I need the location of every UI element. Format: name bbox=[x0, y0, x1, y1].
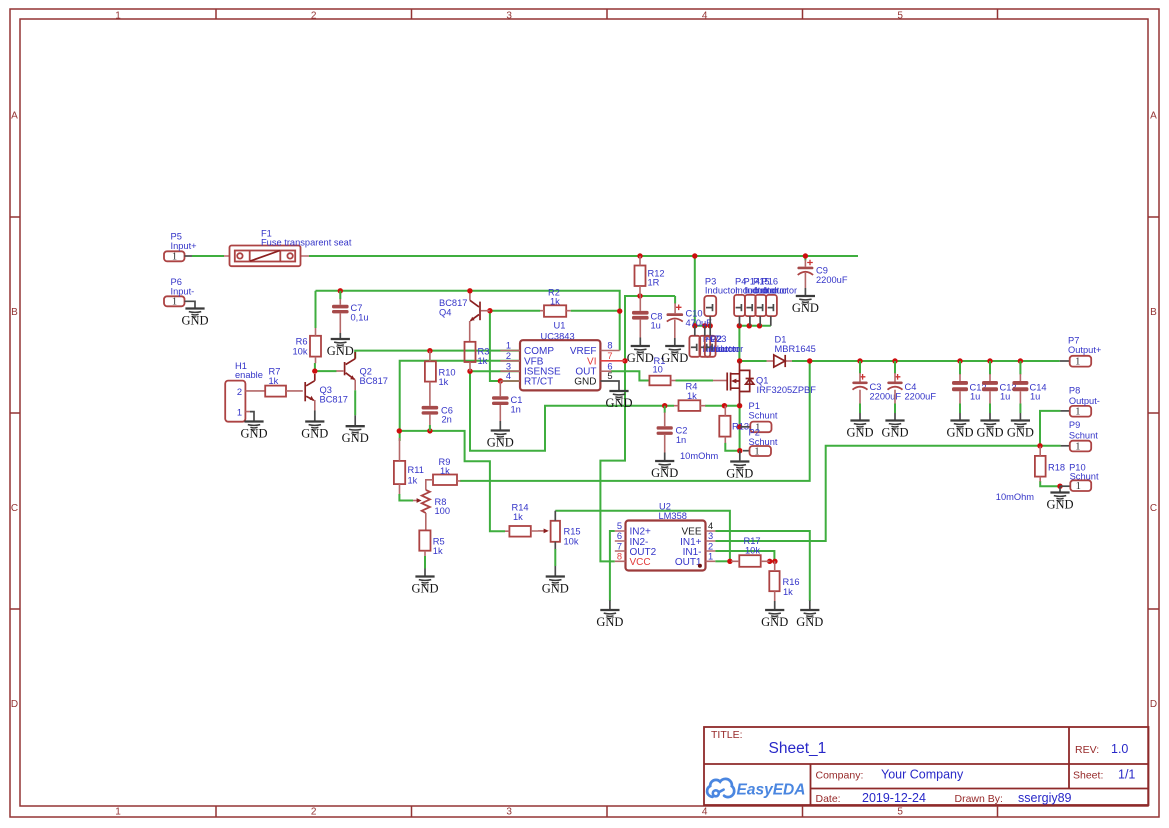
resistor R9 1k bbox=[426, 457, 461, 490]
diode D1 MBR1645 bbox=[767, 335, 816, 367]
junction dot C9 top bbox=[803, 253, 808, 258]
svg-text:P23: P23 bbox=[710, 334, 727, 344]
svg-text:GND: GND bbox=[596, 615, 623, 629]
ground P10 bbox=[1046, 493, 1073, 512]
wire R1 right to Q1 gate bbox=[676, 380, 714, 382]
svg-text:R6: R6 bbox=[296, 337, 308, 347]
junction dot gang lead 3 bbox=[757, 323, 762, 328]
svg-text:IRF3205ZPBF: IRF3205ZPBF bbox=[757, 385, 817, 395]
ground C10 bbox=[661, 346, 688, 365]
junction dot R17 right bbox=[767, 559, 772, 564]
gnd lead P10 node bbox=[1059, 486, 1061, 492]
svg-text:470uF: 470uF bbox=[686, 318, 713, 328]
polarized capacitor C10 470uF bbox=[667, 303, 713, 346]
wire U2 VEE to GND drop bbox=[715, 531, 810, 601]
svg-text:10k: 10k bbox=[564, 536, 579, 546]
svg-text:GND: GND bbox=[605, 396, 632, 410]
svg-text:5: 5 bbox=[617, 521, 622, 531]
connector H1 enable bbox=[225, 361, 265, 422]
wire R17 right to R16 node bbox=[770, 560, 775, 562]
svg-text:Drawn By:: Drawn By: bbox=[955, 793, 1003, 805]
connector P9 Schunt bbox=[1061, 420, 1099, 452]
svg-text:2200uF: 2200uF bbox=[905, 391, 937, 401]
capacitor C14 1u bbox=[1012, 361, 1046, 421]
svg-text:EasyEDA: EasyEDA bbox=[737, 782, 806, 799]
junction dot R16 top bbox=[772, 559, 777, 564]
svg-text:4: 4 bbox=[702, 11, 708, 22]
svg-text:1: 1 bbox=[754, 446, 759, 457]
svg-text:10mOhm: 10mOhm bbox=[680, 451, 718, 461]
EasyEDA logo bbox=[707, 779, 805, 799]
resistor R1 10 bbox=[649, 356, 675, 386]
svg-text:Schunt: Schunt bbox=[1069, 431, 1098, 441]
gnd lead U2 IN2+ bbox=[609, 601, 611, 611]
svg-text:Company:: Company: bbox=[816, 770, 864, 782]
svg-text:4: 4 bbox=[506, 371, 511, 381]
connector P4 Inductor bbox=[734, 276, 768, 326]
svg-text:Your Company: Your Company bbox=[881, 768, 964, 782]
svg-text:REV:: REV: bbox=[1075, 744, 1099, 756]
svg-text:GND: GND bbox=[726, 467, 753, 481]
svg-text:GND: GND bbox=[487, 436, 514, 450]
svg-text:1R: 1R bbox=[648, 278, 660, 288]
svg-text:1k: 1k bbox=[687, 391, 697, 401]
ground C14 bbox=[1007, 421, 1034, 440]
junction dot C7 top bbox=[338, 288, 343, 293]
wire top net down to inductor bank bbox=[695, 256, 710, 326]
ground P6 bbox=[181, 309, 208, 328]
capacitor C6 2n bbox=[422, 405, 453, 431]
svg-text:Inductor: Inductor bbox=[764, 285, 798, 295]
svg-text:GND: GND bbox=[976, 426, 1003, 440]
junction dot R13 top bbox=[722, 403, 727, 408]
svg-text:R5: R5 bbox=[433, 536, 445, 546]
svg-text:3: 3 bbox=[708, 531, 713, 541]
svg-text:1: 1 bbox=[1075, 441, 1080, 452]
op-amp controller U1 UC3843 bbox=[500, 321, 625, 392]
connector P7 Output+ bbox=[1060, 336, 1102, 368]
connector P16 Inductor bbox=[762, 276, 798, 326]
wire VCC net from R12/C8 node down to U2 VCC bbox=[600, 296, 675, 561]
wire R2 right to VREF vertical bbox=[571, 310, 620, 312]
ground C12 bbox=[946, 421, 973, 440]
svg-text:GND: GND bbox=[946, 426, 973, 440]
svg-text:1u: 1u bbox=[970, 392, 980, 402]
resistor R10 1k bbox=[425, 351, 456, 406]
svg-text:1: 1 bbox=[1075, 406, 1080, 417]
wire inductor bank bottom bus bbox=[739, 325, 770, 327]
svg-text:Q1: Q1 bbox=[756, 375, 768, 385]
connector P5 Input+ bbox=[164, 232, 197, 263]
svg-text:R10: R10 bbox=[439, 368, 456, 378]
junction dot P1 tap bbox=[737, 424, 742, 429]
svg-text:7: 7 bbox=[607, 351, 612, 361]
ground Q2 bbox=[342, 426, 369, 445]
polarized capacitor C9 2200uF bbox=[797, 260, 847, 296]
wire Q1 drain node to D1 anode bbox=[740, 360, 767, 362]
svg-text:D: D bbox=[1150, 699, 1157, 710]
svg-text:Sheet_1: Sheet_1 bbox=[769, 740, 827, 757]
svg-text:1u: 1u bbox=[1000, 392, 1010, 402]
polarized capacitor C3 2200uF bbox=[852, 361, 901, 421]
svg-text:10: 10 bbox=[653, 365, 663, 375]
svg-text:10k: 10k bbox=[293, 346, 308, 356]
svg-text:GND: GND bbox=[542, 582, 569, 596]
svg-text:GND: GND bbox=[411, 582, 438, 596]
svg-text:2200uF: 2200uF bbox=[816, 275, 848, 285]
junction dot C4 top bbox=[892, 358, 897, 363]
svg-text:4: 4 bbox=[708, 521, 713, 531]
svg-text:P8: P8 bbox=[1069, 386, 1080, 396]
svg-text:1k: 1k bbox=[440, 466, 450, 476]
svg-text:VCC: VCC bbox=[630, 557, 651, 568]
svg-text:Output+: Output+ bbox=[1068, 345, 1101, 355]
svg-text:ssergiy89: ssergiy89 bbox=[1018, 791, 1072, 805]
svg-text:GND: GND bbox=[240, 427, 267, 441]
connector P10 Schunt bbox=[1060, 462, 1099, 492]
wire R3 bottom to U1 ISENSE pin3 bbox=[470, 370, 520, 372]
junction dot Q1 drain bbox=[737, 358, 742, 363]
svg-text:1: 1 bbox=[237, 407, 242, 417]
svg-text:R3: R3 bbox=[478, 347, 490, 357]
svg-text:GND: GND bbox=[881, 426, 908, 440]
ground C1 bbox=[487, 431, 514, 450]
svg-text:2: 2 bbox=[311, 11, 317, 22]
junction dot P2 / GND node bbox=[737, 448, 742, 453]
svg-text:1: 1 bbox=[172, 297, 177, 308]
ground U2 VEE bbox=[796, 610, 823, 629]
svg-text:1: 1 bbox=[708, 552, 713, 562]
svg-text:Q4: Q4 bbox=[439, 307, 451, 317]
junction dot C2 top bbox=[662, 403, 667, 408]
svg-text:P1: P1 bbox=[749, 401, 760, 411]
svg-text:Input-: Input- bbox=[171, 287, 195, 297]
junction dot Q1 source / R4 bbox=[737, 403, 742, 408]
svg-text:C7: C7 bbox=[351, 303, 363, 313]
svg-text:1k: 1k bbox=[408, 476, 418, 486]
junction dot C12 top bbox=[957, 358, 962, 363]
polarized capacitor C4 2200uF bbox=[887, 361, 936, 421]
wire R18 bottom to P10/GND node bbox=[1040, 481, 1060, 486]
junction dot inductor feed bbox=[692, 253, 697, 258]
gnd lead U2 VEE bbox=[809, 601, 811, 611]
svg-text:enable: enable bbox=[235, 370, 263, 380]
ground R5 bbox=[411, 577, 438, 596]
svg-text:1: 1 bbox=[1076, 481, 1081, 492]
ground C9 bbox=[792, 296, 819, 315]
svg-text:5: 5 bbox=[897, 807, 903, 818]
svg-text:C: C bbox=[1150, 503, 1157, 514]
svg-text:GND: GND bbox=[761, 615, 788, 629]
resistor R14 1k bbox=[505, 503, 549, 537]
svg-text:R15: R15 bbox=[564, 526, 581, 536]
ground U1 pin5 bbox=[605, 391, 632, 410]
wire inductor bus down to Q1 drain node bbox=[738, 326, 740, 361]
junction dot C14 top bbox=[1018, 358, 1023, 363]
resistor R6 10k bbox=[293, 328, 322, 363]
svg-text:B: B bbox=[11, 307, 18, 318]
transistor Q4 BC817 bbox=[439, 294, 490, 342]
ground C13 bbox=[976, 421, 1003, 440]
svg-text:C: C bbox=[11, 503, 18, 514]
svg-text:R14: R14 bbox=[512, 503, 529, 513]
svg-text:BC817: BC817 bbox=[320, 395, 348, 405]
junction dot D1 output / R9 net bbox=[807, 358, 812, 363]
capacitor C2 1n bbox=[657, 406, 688, 461]
svg-text:R17: R17 bbox=[744, 536, 761, 546]
svg-text:Q2: Q2 bbox=[360, 367, 372, 377]
svg-text:LM358: LM358 bbox=[659, 511, 687, 521]
junction dot U1 VI pin7 to VCC net bbox=[622, 358, 627, 363]
svg-text:1: 1 bbox=[115, 11, 121, 22]
wire Q4 base node down to U1 RT/CT pin4 bbox=[490, 311, 520, 381]
connector P14 Inductor bbox=[744, 276, 779, 326]
capacitor C13 1u bbox=[982, 361, 1017, 421]
svg-text:Q3: Q3 bbox=[320, 385, 332, 395]
junction dot inductor row right bbox=[708, 323, 713, 328]
svg-text:VFB: VFB bbox=[524, 356, 544, 367]
junction dot R12 top bbox=[637, 253, 642, 258]
svg-text:GND: GND bbox=[574, 377, 596, 388]
wire U1 OUT pin6 to R1 bbox=[611, 371, 649, 380]
svg-text:8: 8 bbox=[607, 341, 612, 351]
wire C7/Q4 collector to U1 VREF pin8 bbox=[316, 291, 620, 351]
svg-text:Inductor: Inductor bbox=[705, 285, 739, 295]
fuse F1 bbox=[224, 229, 352, 267]
svg-text:B: B bbox=[1150, 307, 1157, 318]
ground Q3 bbox=[301, 422, 328, 441]
svg-text:RT/CT: RT/CT bbox=[524, 377, 553, 388]
capacitor C12 1u bbox=[952, 361, 987, 421]
junction dot OUT1 feedback bbox=[727, 559, 732, 564]
junction dot R3 bottom / ISENSE bbox=[467, 369, 472, 374]
junction dot C3 top bbox=[857, 358, 862, 363]
resistor R17 10k bbox=[731, 536, 770, 567]
wire R2 left to Q4 base node bbox=[490, 310, 540, 312]
svg-text:GND: GND bbox=[1007, 426, 1034, 440]
ground H1 bbox=[240, 422, 267, 441]
svg-text:R16: R16 bbox=[783, 577, 800, 587]
svg-text:GND: GND bbox=[796, 615, 823, 629]
connector P2 Schunt bbox=[743, 428, 778, 458]
svg-text:10k: 10k bbox=[745, 546, 760, 556]
svg-text:GND: GND bbox=[1046, 498, 1073, 512]
wire top net from F1 to C9 area bbox=[309, 255, 858, 257]
svg-text:C10: C10 bbox=[686, 309, 703, 319]
ground P2 node bbox=[726, 462, 753, 481]
ground R16 bbox=[761, 610, 788, 629]
svg-text:3: 3 bbox=[506, 361, 511, 371]
svg-text:D: D bbox=[11, 699, 18, 710]
svg-text:OUT1: OUT1 bbox=[675, 557, 702, 568]
svg-text:A: A bbox=[11, 111, 18, 122]
wire Q2 collector to U1 COMP pin1 bbox=[355, 351, 520, 359]
connector P8 Output- bbox=[1060, 386, 1100, 418]
junction dot R10 top bbox=[427, 348, 432, 353]
svg-text:VI: VI bbox=[587, 356, 596, 367]
svg-text:1u: 1u bbox=[651, 320, 661, 330]
svg-text:3: 3 bbox=[506, 807, 512, 818]
transistor Q3 BC817 bbox=[305, 374, 348, 422]
svg-text:1k: 1k bbox=[433, 546, 443, 556]
wire R11/C6 node to R14 bbox=[399, 431, 505, 531]
resistor R2 1k bbox=[540, 287, 571, 317]
svg-text:1.0: 1.0 bbox=[1111, 742, 1128, 756]
svg-text:GND: GND bbox=[181, 314, 208, 328]
svg-text:BC817: BC817 bbox=[360, 376, 388, 386]
svg-text:1: 1 bbox=[1075, 356, 1080, 367]
resistor R16 1k bbox=[769, 561, 799, 610]
svg-text:4: 4 bbox=[702, 807, 708, 818]
wire Q1 source down to P1/P2/GND node bbox=[739, 406, 741, 451]
MOSFET Q1 IRF3205ZPBF bbox=[713, 361, 816, 406]
potentiometer R15 10k bbox=[551, 511, 581, 577]
svg-text:2: 2 bbox=[708, 541, 713, 551]
svg-text:GND: GND bbox=[792, 301, 819, 315]
svg-text:2: 2 bbox=[311, 807, 317, 818]
svg-text:R18: R18 bbox=[1048, 462, 1065, 472]
svg-text:GND: GND bbox=[846, 426, 873, 440]
wire P9 node stub bbox=[1040, 445, 1061, 447]
svg-text:Output-: Output- bbox=[1069, 396, 1100, 406]
wire R13 bottom to P2 node bbox=[725, 443, 740, 451]
resistor R7 1k bbox=[265, 367, 303, 397]
wire ISENSE net down and to R4 row bbox=[470, 371, 674, 451]
svg-text:P6: P6 bbox=[171, 277, 182, 287]
connector P23 Inductor bbox=[705, 326, 743, 357]
svg-text:Date:: Date: bbox=[816, 793, 841, 805]
connector P17 Inductor bbox=[689, 326, 736, 357]
svg-text:100: 100 bbox=[435, 506, 451, 516]
connector P15 Inductor bbox=[753, 276, 788, 326]
svg-text:1: 1 bbox=[506, 341, 511, 351]
svg-text:A: A bbox=[1150, 111, 1157, 122]
svg-text:GND: GND bbox=[301, 427, 328, 441]
svg-text:1k: 1k bbox=[269, 376, 279, 386]
svg-text:Schunt: Schunt bbox=[1070, 472, 1099, 482]
svg-text:2: 2 bbox=[506, 351, 511, 361]
svg-text:0,1u: 0,1u bbox=[351, 313, 369, 323]
wire P5 to F1 bbox=[192, 255, 224, 257]
svg-text:5: 5 bbox=[897, 11, 903, 22]
junction dot P10 / GND node bbox=[1057, 484, 1062, 489]
svg-text:GND: GND bbox=[651, 466, 678, 480]
svg-text:1/1: 1/1 bbox=[1118, 768, 1135, 782]
svg-text:5: 5 bbox=[607, 371, 612, 381]
resistor R12 1R bbox=[635, 256, 665, 296]
resistor R13 10mOhm bbox=[719, 406, 749, 443]
gnd lead P2 node bbox=[739, 451, 741, 462]
svg-text:8: 8 bbox=[617, 552, 622, 562]
wire U2 IN1- to R17/R16 node bbox=[715, 551, 774, 561]
junction dot R11 top bbox=[397, 428, 402, 433]
potentiometer R8 100 bbox=[413, 490, 450, 531]
svg-text:GND: GND bbox=[342, 431, 369, 445]
svg-text:GND: GND bbox=[661, 351, 688, 365]
junction dot R12 bottom / C8 bbox=[637, 293, 642, 298]
svg-text:1n: 1n bbox=[511, 404, 521, 414]
junction dot R6 bottom / Q3 collector bbox=[312, 368, 317, 373]
svg-text:7: 7 bbox=[617, 541, 622, 551]
junction dot Q4 collector bbox=[467, 288, 472, 293]
junction dot C1 top / RT-CT bbox=[498, 378, 503, 383]
svg-text:C9: C9 bbox=[816, 266, 828, 276]
svg-text:1k: 1k bbox=[550, 297, 560, 307]
capacitor C8 1u bbox=[632, 296, 662, 346]
ground R15 bbox=[542, 577, 569, 596]
svg-text:P9: P9 bbox=[1069, 420, 1080, 430]
transistor Q2 BC817 bbox=[336, 352, 388, 426]
svg-text:P5: P5 bbox=[171, 232, 182, 242]
wire U2 IN1+ to P9/P8/R18 node bbox=[715, 411, 1060, 541]
ground C7 bbox=[327, 339, 354, 358]
svg-text:1k: 1k bbox=[513, 512, 523, 522]
svg-text:U1: U1 bbox=[554, 321, 566, 331]
svg-text:2200uF: 2200uF bbox=[870, 391, 902, 401]
svg-text:1k: 1k bbox=[478, 356, 488, 366]
resistor R4 1k bbox=[674, 382, 706, 411]
svg-text:2019-12-24: 2019-12-24 bbox=[862, 791, 926, 805]
title block bbox=[704, 727, 1149, 805]
junction dot C13 top bbox=[987, 358, 992, 363]
svg-text:1k: 1k bbox=[783, 587, 793, 597]
junction dot Q4 base / R2 left bbox=[487, 308, 492, 313]
svg-text:1n: 1n bbox=[676, 435, 686, 445]
svg-text:6: 6 bbox=[617, 531, 622, 541]
svg-text:P7: P7 bbox=[1068, 336, 1079, 346]
junction dot inductor row mid bbox=[702, 323, 707, 328]
resistor R11 1k bbox=[394, 438, 424, 501]
ground C2 bbox=[651, 461, 678, 480]
junction dot P8/P9/R18 node bbox=[1037, 443, 1042, 448]
svg-text:C2: C2 bbox=[676, 426, 688, 436]
wire U2 OUT1 to R17 left bbox=[715, 560, 731, 562]
svg-text:1: 1 bbox=[172, 252, 177, 263]
junction dot C6 bottom bbox=[427, 428, 432, 433]
junction dot inductor row left bbox=[692, 323, 697, 328]
svg-text:1u: 1u bbox=[1030, 392, 1040, 402]
ground C4 bbox=[881, 421, 908, 440]
connector P3 Inductor bbox=[704, 276, 738, 326]
svg-text:1: 1 bbox=[115, 807, 121, 818]
svg-text:Schunt: Schunt bbox=[749, 411, 778, 421]
svg-text:Fuse transparent seat: Fuse transparent seat bbox=[261, 238, 352, 248]
ground C3 bbox=[846, 421, 873, 440]
svg-text:GND: GND bbox=[627, 351, 654, 365]
wire C9 top stub bbox=[804, 256, 806, 261]
svg-text:TITLE:: TITLE: bbox=[711, 729, 743, 741]
svg-text:10mOhm: 10mOhm bbox=[996, 492, 1034, 502]
svg-text:Sheet:: Sheet: bbox=[1073, 770, 1103, 782]
svg-text:2: 2 bbox=[237, 387, 242, 397]
ground C8 bbox=[627, 346, 654, 365]
wire C10 top drop bbox=[674, 296, 676, 304]
resistor R18 10mOhm bbox=[1035, 446, 1065, 481]
svg-text:1k: 1k bbox=[439, 377, 449, 387]
ground U2 IN2+ bbox=[596, 610, 623, 629]
junction dot R2 right / VREF bbox=[617, 308, 622, 313]
junction dot gang lead 1 bbox=[737, 323, 742, 328]
capacitor C7 0,1u bbox=[332, 291, 369, 339]
svg-text:3: 3 bbox=[506, 11, 512, 22]
svg-text:Input+: Input+ bbox=[171, 241, 197, 251]
connector P22 Inductor bbox=[699, 326, 739, 357]
wire R15 top to U2 OUT1 feedback bbox=[555, 511, 730, 562]
svg-text:GND: GND bbox=[327, 344, 354, 358]
wire R6 top drop bbox=[315, 291, 317, 328]
wire R6 bottom to Q2 base bbox=[315, 363, 337, 371]
capacitor C1 1n bbox=[492, 381, 522, 431]
